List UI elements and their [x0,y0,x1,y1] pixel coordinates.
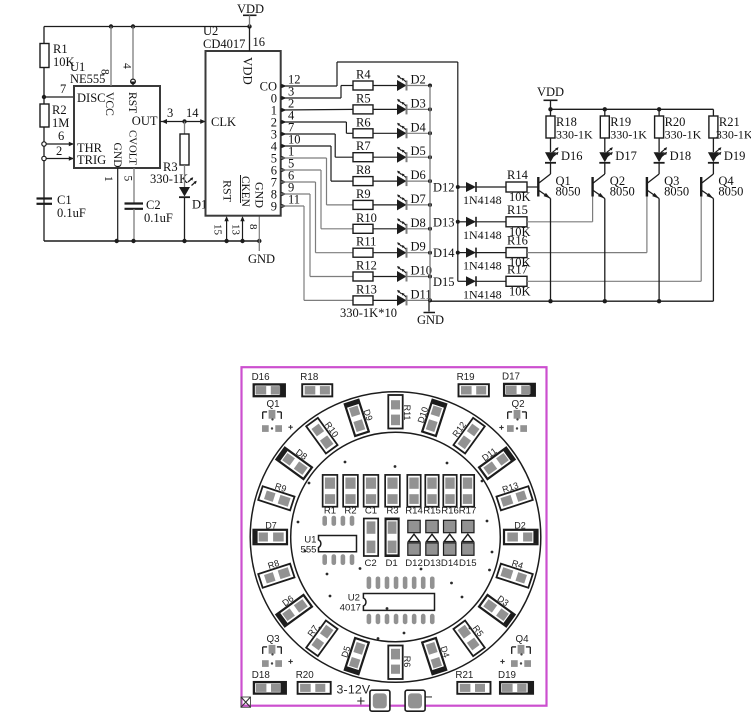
svg-text:R8: R8 [356,163,371,177]
svg-text:GND: GND [111,143,124,168]
svg-text:VCC: VCC [103,92,116,116]
svg-text:3: 3 [167,106,173,120]
svg-text:D16: D16 [252,372,271,383]
svg-text:330-1K: 330-1K [716,128,751,142]
svg-text:330-1K: 330-1K [150,172,188,186]
svg-text:1N4148: 1N4148 [463,259,502,273]
svg-text:15: 15 [212,224,224,236]
svg-text:R1: R1 [53,42,68,56]
svg-text:D12: D12 [433,181,455,195]
svg-text:TRIG: TRIG [77,153,106,167]
svg-text:R7: R7 [356,139,371,153]
svg-text:2: 2 [56,144,62,158]
svg-text:RST: RST [126,92,139,113]
svg-text:GND: GND [253,182,267,208]
svg-text:+: + [357,693,366,710]
svg-text:D19: D19 [498,670,516,681]
svg-text:R11: R11 [356,235,376,249]
svg-text:4017: 4017 [340,603,361,614]
svg-text:D15: D15 [433,275,455,289]
svg-text:D2: D2 [411,73,426,87]
svg-text:C2: C2 [365,558,377,569]
svg-text:8050: 8050 [664,185,689,199]
svg-text:DISC: DISC [77,91,105,105]
svg-text:Q4: Q4 [516,634,530,645]
svg-text:D4: D4 [411,120,427,134]
svg-text:R6: R6 [356,115,371,129]
svg-text:CVOLT: CVOLT [127,130,139,165]
svg-text:8050: 8050 [556,185,581,199]
svg-text:1: 1 [102,176,114,182]
svg-text:R19: R19 [457,372,475,383]
svg-text:C1: C1 [365,506,377,517]
svg-text:5: 5 [122,176,134,182]
svg-text:13: 13 [230,224,242,236]
svg-text:8050: 8050 [718,185,743,199]
svg-text:D17: D17 [615,149,637,163]
svg-text:R4: R4 [356,68,371,82]
svg-text:R15: R15 [507,203,528,217]
svg-text:R10: R10 [356,211,377,225]
svg-text:R20: R20 [296,670,315,681]
svg-text:GND: GND [248,252,275,266]
svg-text:14: 14 [186,106,199,120]
svg-text:D18: D18 [252,670,271,681]
svg-text:8: 8 [247,224,259,230]
svg-text:0.1uF: 0.1uF [144,211,173,225]
svg-text:D12: D12 [405,558,423,569]
svg-text:16: 16 [253,35,266,49]
svg-text:R12: R12 [356,259,377,273]
svg-text:3-12V: 3-12V [337,683,371,697]
svg-text:U2: U2 [203,24,218,38]
svg-text:R13: R13 [356,282,377,296]
svg-text:330-1K: 330-1K [610,128,647,142]
svg-text:7: 7 [60,82,66,96]
svg-text:D19: D19 [724,149,746,163]
svg-text:D9: D9 [411,240,426,254]
svg-text:0.1uF: 0.1uF [57,206,86,220]
svg-text:R2: R2 [52,103,67,117]
svg-text:D15: D15 [459,558,477,569]
svg-text:C1: C1 [57,193,72,207]
svg-text:8050: 8050 [610,185,635,199]
svg-text:D7: D7 [265,520,277,530]
svg-text:R16: R16 [507,234,528,248]
svg-text:8: 8 [99,69,111,75]
svg-text:D8: D8 [411,216,426,230]
svg-text:VDD: VDD [237,2,264,16]
svg-text:R14: R14 [507,168,529,182]
svg-text:R17: R17 [507,262,528,276]
svg-text:D18: D18 [670,149,692,163]
svg-text:R3: R3 [386,506,398,517]
svg-text:D17: D17 [502,372,520,383]
svg-text:R21: R21 [455,670,473,681]
svg-text:D7: D7 [411,192,426,206]
svg-text:R11: R11 [402,405,412,421]
svg-text:Q1: Q1 [267,399,280,410]
svg-text:1M: 1M [52,116,69,130]
svg-text:D14: D14 [433,246,455,260]
svg-text:D2: D2 [514,520,526,530]
svg-text:6: 6 [58,129,64,143]
svg-text:VDD: VDD [241,57,255,85]
svg-text:D13: D13 [433,215,455,229]
svg-text:R1: R1 [324,506,336,517]
svg-text:1N4148: 1N4148 [463,193,502,207]
svg-text:D14: D14 [441,558,459,569]
svg-text:9: 9 [271,200,277,214]
svg-text:OUT: OUT [132,114,158,128]
svg-text:CLK: CLK [211,115,236,129]
svg-text:R18: R18 [300,372,319,383]
svg-text:1N4148: 1N4148 [463,228,502,242]
svg-text:Q3: Q3 [267,634,281,645]
svg-text:D1: D1 [386,558,398,569]
svg-text:CD4017: CD4017 [203,37,245,51]
svg-text:10K: 10K [509,284,531,298]
svg-text:11: 11 [288,193,300,207]
svg-text:D13: D13 [423,558,441,569]
svg-text:R9: R9 [356,187,371,201]
svg-text:D3: D3 [411,96,426,110]
svg-text:D16: D16 [561,149,583,163]
svg-text:−: − [425,689,433,705]
svg-text:R16: R16 [441,506,459,517]
svg-text:330-1K*10: 330-1K*10 [340,306,397,320]
svg-text:555: 555 [300,545,316,556]
svg-text:330-1K: 330-1K [665,128,702,142]
svg-text:GND: GND [417,313,444,327]
svg-text:D5: D5 [411,144,426,158]
svg-text:R6: R6 [402,656,412,668]
svg-text:1N4148: 1N4148 [463,287,502,301]
svg-text:R5: R5 [356,91,371,105]
svg-text:330-1K: 330-1K [556,128,593,142]
svg-text:D6: D6 [411,168,426,182]
svg-text:RST: RST [221,180,235,203]
svg-text:4: 4 [121,63,133,69]
svg-text:R2: R2 [344,506,356,517]
svg-text:VDD: VDD [537,85,564,99]
svg-text:R17: R17 [459,506,477,517]
svg-text:R15: R15 [423,506,441,517]
svg-text:C2: C2 [146,198,161,212]
svg-text:R14: R14 [405,506,423,517]
svg-text:Q2: Q2 [512,399,525,410]
